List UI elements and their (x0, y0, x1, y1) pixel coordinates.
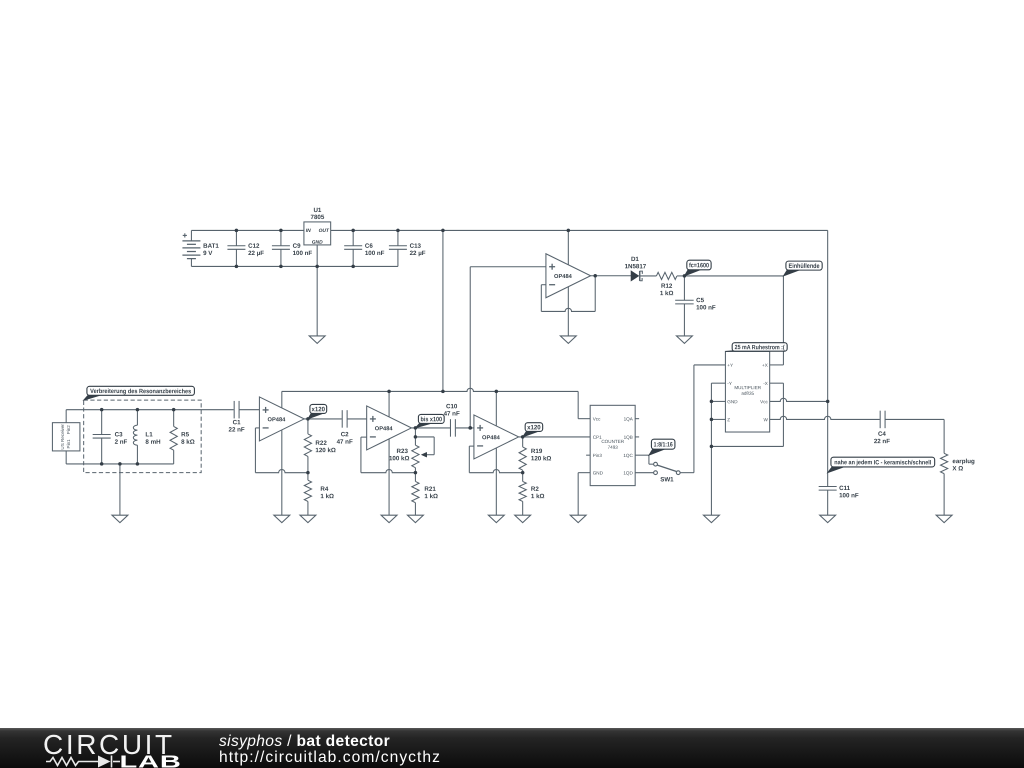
svg-text:W: W (763, 417, 768, 422)
svg-text:GND: GND (593, 470, 604, 475)
svg-text:R19: R19 (531, 448, 543, 455)
svg-text:OP484: OP484 (375, 426, 394, 432)
svg-text:U1: U1 (313, 207, 321, 214)
svg-text:x120: x120 (527, 424, 541, 431)
svg-text:C9: C9 (293, 243, 301, 250)
svg-text:-Y: -Y (727, 381, 732, 386)
svg-text:LAB: LAB (120, 752, 182, 768)
svg-text:US Receiver: US Receiver (60, 424, 65, 450)
svg-text:Pin1 Pin2: Pin1 Pin2 (66, 425, 71, 449)
svg-text:D1: D1 (631, 256, 639, 263)
svg-text:1QB: 1QB (624, 435, 633, 440)
svg-text:120 kΩ: 120 kΩ (531, 455, 551, 462)
svg-text:+Y: +Y (727, 363, 733, 368)
svg-text:8 kΩ: 8 kΩ (181, 439, 195, 446)
svg-text:-X: -X (763, 381, 768, 386)
svg-text:47 nF: 47 nF (337, 439, 353, 446)
svg-text:1N5817: 1N5817 (625, 263, 647, 270)
svg-text:x120: x120 (312, 406, 326, 413)
svg-text:1QD: 1QD (623, 470, 633, 475)
svg-text:C3: C3 (115, 431, 123, 438)
svg-text:COUNTER: COUNTER (601, 439, 624, 444)
svg-text:SW1: SW1 (660, 476, 674, 483)
svg-text:Vcc: Vcc (593, 416, 601, 421)
svg-text:MULTIPLIER: MULTIPLIER (734, 385, 761, 390)
svg-text:100 nF: 100 nF (839, 492, 859, 499)
svg-text:2 nF: 2 nF (115, 439, 128, 446)
svg-text:Einhüllende: Einhüllende (789, 263, 820, 270)
svg-text:GND: GND (727, 399, 738, 404)
svg-text:X Ω: X Ω (952, 465, 963, 472)
svg-text:22 nF: 22 nF (874, 438, 890, 445)
svg-text:C1: C1 (233, 419, 241, 426)
svg-text:Vcc: Vcc (760, 399, 768, 404)
svg-text:R4: R4 (320, 486, 328, 493)
svg-text:9 V: 9 V (203, 250, 213, 257)
svg-text:L1: L1 (145, 431, 153, 438)
svg-text:+X: +X (762, 363, 768, 368)
svg-text:IN: IN (306, 228, 311, 234)
svg-text:1 kΩ: 1 kΩ (320, 493, 334, 500)
svg-text:22 µF: 22 µF (410, 250, 426, 257)
svg-text:OP484: OP484 (554, 274, 573, 280)
svg-text:7805: 7805 (311, 214, 325, 221)
svg-text:1 kΩ: 1 kΩ (660, 290, 674, 297)
svg-text:fc=1600: fc=1600 (689, 262, 709, 269)
svg-text:25 mA Ruhestrom :(: 25 mA Ruhestrom :( (735, 344, 786, 351)
svg-text:100 nF: 100 nF (293, 250, 313, 257)
svg-text:GND: GND (312, 240, 323, 246)
svg-text:1QC: 1QC (623, 453, 633, 458)
svg-text:R23: R23 (397, 448, 409, 455)
svg-text:C5: C5 (696, 297, 704, 304)
svg-text:7493: 7493 (608, 445, 619, 450)
svg-text:Z: Z (727, 417, 730, 422)
svg-text:bis x100: bis x100 (421, 416, 443, 423)
svg-text:R2: R2 (531, 486, 539, 493)
svg-text:8 mH: 8 mH (145, 439, 161, 446)
svg-text:120 kΩ: 120 kΩ (315, 447, 335, 454)
svg-text:1 kΩ: 1 kΩ (531, 493, 545, 500)
svg-text:R5: R5 (181, 431, 189, 438)
svg-text:100 nF: 100 nF (696, 304, 716, 311)
svg-text:C11: C11 (839, 485, 851, 492)
svg-text:100 kΩ: 100 kΩ (389, 455, 409, 462)
svg-text:Pin3: Pin3 (593, 453, 603, 458)
svg-text:earplug: earplug (952, 458, 975, 465)
svg-text:R21: R21 (424, 486, 436, 493)
svg-text:R12: R12 (661, 283, 673, 290)
svg-text:OUT: OUT (319, 228, 330, 234)
svg-text:1 kΩ: 1 kΩ (424, 493, 438, 500)
svg-text:OP484: OP484 (268, 417, 287, 423)
svg-text:C6: C6 (365, 243, 373, 250)
svg-text:C12: C12 (248, 243, 260, 250)
svg-text:C2: C2 (341, 431, 349, 438)
svg-text:1:8/1:16: 1:8/1:16 (654, 441, 673, 448)
svg-text:ad835: ad835 (741, 391, 754, 396)
svg-text:100 nF: 100 nF (365, 250, 385, 257)
svg-text:R22: R22 (315, 440, 327, 447)
svg-text:1QA: 1QA (624, 416, 634, 421)
svg-text:22 nF: 22 nF (229, 427, 245, 434)
svg-text:OP484: OP484 (482, 435, 501, 441)
svg-text:C13: C13 (410, 243, 422, 250)
svg-text:22 µF: 22 µF (248, 250, 264, 257)
svg-text:C10: C10 (446, 403, 458, 410)
svg-text:nahe an jedem IC - keramisch/s: nahe an jedem IC - keramisch/schnell (834, 459, 931, 466)
svg-text:Verbreiterung des Resonanzbere: Verbreiterung des Resonanzbereiches (90, 388, 192, 395)
svg-text:BAT1: BAT1 (203, 243, 219, 250)
svg-text:C4: C4 (878, 431, 886, 438)
svg-text:47 nF: 47 nF (444, 411, 460, 418)
